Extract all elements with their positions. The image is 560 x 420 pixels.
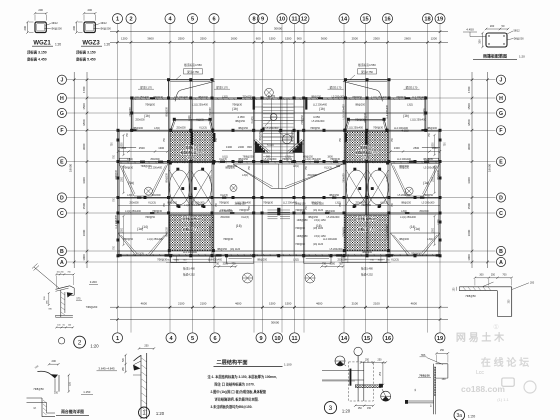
- svg-text:7Φ8@50: 7Φ8@50: [282, 158, 292, 161]
- balcony slab below unit: [342, 256, 387, 262]
- svg-text:7Φ8@50: 7Φ8@50: [352, 96, 362, 99]
- svg-text:250x500: 250x500: [355, 202, 365, 205]
- svg-text:Φ8@200: Φ8@200: [133, 127, 143, 130]
- under-plan leader texts: [183, 267, 373, 277]
- svg-text:1Φ8@150: 1Φ8@150: [297, 235, 309, 238]
- svg-text:L3(2): L3(2): [407, 104, 413, 107]
- svg-text:10: 10: [279, 17, 285, 23]
- svg-text:250: 250: [491, 274, 496, 277]
- lower bay right wing: [391, 233, 441, 256]
- bottom wall poche: [216, 255, 222, 257]
- svg-text:A: A: [60, 260, 64, 266]
- svg-text:250: 250: [144, 344, 149, 347]
- svg-text:3000: 3000: [378, 260, 384, 262]
- svg-text:在 线 论 坛: 在 线 论 坛: [481, 356, 529, 369]
- svg-text:1:20: 1:20: [90, 343, 99, 348]
- svg-text:7Φ8@50: 7Φ8@50: [33, 387, 44, 391]
- svg-text:梁顶3.170: 梁顶3.170: [406, 85, 418, 89]
- svg-text:7Φ8@200: 7Φ8@200: [86, 306, 98, 309]
- hatched roof slab upper right: [345, 131, 389, 162]
- svg-text:9: 9: [261, 17, 264, 23]
- svg-text:10: 10: [274, 336, 280, 342]
- svg-text:Φ8@150: Φ8@150: [166, 227, 169, 237]
- svg-text:板顶1.480: 板顶1.480: [183, 267, 195, 271]
- core wall vertical: [261, 98, 263, 162]
- row poche dashes: [137, 97, 429, 214]
- top segment dims: [110, 36, 448, 43]
- svg-text:1500: 1500: [121, 176, 123, 182]
- svg-text:L1(1) 250x400: L1(1) 250x400: [125, 210, 141, 213]
- svg-text:Φ8@150: Φ8@150: [259, 131, 262, 141]
- svg-text:11: 11: [292, 336, 298, 342]
- svg-text:30600: 30600: [274, 26, 283, 30]
- svg-text:1:20: 1:20: [104, 43, 110, 47]
- svg-text:800: 800: [247, 145, 252, 149]
- svg-text:3000: 3000: [467, 143, 471, 150]
- svg-text:LL2 200x400: LL2 200x400: [412, 96, 427, 99]
- svg-text:底标高 5.450: 底标高 5.450: [75, 56, 96, 61]
- svg-text:L3(2): L3(2): [427, 238, 433, 241]
- svg-text:板底4.252: 板底4.252: [183, 273, 195, 277]
- svg-text:1000: 1000: [82, 254, 86, 261]
- svg-text:1500: 1500: [467, 103, 471, 110]
- svg-text:3600: 3600: [82, 229, 86, 236]
- svg-text:L1(1) 250x400: L1(1) 250x400: [344, 104, 346, 120]
- svg-text:100: 100: [54, 391, 59, 394]
- detail 1 label: [139, 407, 165, 418]
- svg-text:250x500: 250x500: [210, 107, 212, 117]
- svg-text:3000: 3000: [223, 262, 229, 265]
- detail callout a: [270, 114, 277, 121]
- E row text band: [141, 156, 410, 168]
- svg-text:Φ8@200: Φ8@200: [362, 251, 372, 254]
- unit wall vertical: [345, 98, 347, 256]
- bottom wall poche: [436, 255, 440, 257]
- top-right beam section detail: [463, 24, 525, 60]
- svg-text:Φ8@150: Φ8@150: [401, 202, 411, 205]
- svg-text:1200: 1200: [431, 36, 438, 40]
- wing interior vertical dims: [121, 134, 435, 246]
- svg-text:F: F: [499, 128, 502, 134]
- svg-text:1: 1: [116, 17, 119, 23]
- svg-text:Φ8@200: Φ8@200: [427, 127, 437, 130]
- detail 3a drawing: [405, 349, 449, 414]
- core mid horizontal 3: [254, 106, 304, 108]
- svg-text:L1(1) 250x400: L1(1) 250x400: [387, 224, 389, 240]
- svg-text:750: 750: [215, 262, 220, 265]
- stair ovals left unit: [169, 162, 212, 216]
- svg-text:L3(2): L3(2): [127, 158, 133, 161]
- svg-text:L3(2): L3(2): [242, 174, 248, 177]
- balcony left: [112, 129, 137, 161]
- svg-text:3000: 3000: [330, 262, 336, 265]
- svg-text:L1(1) 250x400: L1(1) 250x400: [305, 158, 321, 161]
- svg-text:1500: 1500: [269, 301, 276, 305]
- svg-text:2500: 2500: [178, 36, 185, 40]
- svg-text:LL2 200x400: LL2 200x400: [183, 251, 198, 254]
- svg-text:1:20: 1:20: [156, 411, 165, 416]
- svg-text:1:20: 1:20: [342, 409, 351, 414]
- dense labels mid-right: [220, 203, 326, 252]
- svg-text:2: 2: [78, 340, 82, 347]
- svg-text:J: J: [60, 78, 63, 84]
- svg-text:750: 750: [232, 262, 237, 265]
- svg-text:250x500: 250x500: [129, 202, 139, 205]
- svg-text:1500: 1500: [467, 203, 471, 210]
- svg-text:2100: 2100: [352, 301, 359, 305]
- svg-text:Φ8@200: Φ8@200: [311, 202, 321, 205]
- detail callout b: [282, 135, 291, 144]
- gutter detail B: [97, 344, 156, 419]
- svg-text:7Φ8@50: 7Φ8@50: [301, 115, 304, 125]
- svg-text:7Φ8@50: 7Φ8@50: [355, 119, 365, 122]
- right segment dims: [467, 72, 474, 268]
- D-C mid beam: [118, 205, 440, 207]
- svg-text:KL2(3): KL2(3): [324, 167, 332, 170]
- svg-text:12: 12: [301, 17, 307, 23]
- porch slab: [227, 256, 254, 263]
- svg-text:7Φ8@30: 7Φ8@30: [115, 170, 118, 180]
- svg-text:4600: 4600: [411, 301, 418, 305]
- svg-text:7Φ8@50: 7Φ8@50: [465, 294, 476, 298]
- B row line: [118, 250, 440, 252]
- svg-text:700: 700: [502, 274, 507, 277]
- svg-text:KL2(3): KL2(3): [268, 95, 276, 98]
- svg-text:详见结施说明, 板负筋详见本图.: 详见结施说明, 板负筋详见本图.: [215, 396, 259, 401]
- watermark: [456, 323, 536, 402]
- svg-text:L5(1) 1150: L5(1) 1150: [314, 219, 326, 222]
- core cell lines: [271, 98, 273, 162]
- svg-text:19: 19: [437, 336, 443, 342]
- svg-text:6: 6: [212, 17, 215, 23]
- core dims: [222, 115, 409, 151]
- column detail WGZ1: [23, 8, 63, 62]
- svg-text:(14): (14): [410, 225, 416, 229]
- svg-text:板顶标高4.550: 板顶标高4.550: [358, 63, 376, 67]
- svg-text:4.050: 4.050: [313, 115, 320, 119]
- svg-text:1800: 1800: [327, 156, 333, 159]
- svg-text:1700: 1700: [467, 86, 471, 93]
- outer wall right edge: [439, 130, 441, 256]
- svg-text:1500: 1500: [432, 176, 434, 182]
- wing room funnel right: [391, 164, 440, 197]
- svg-text:250x500: 250x500: [130, 107, 132, 117]
- svg-text:130: 130: [442, 378, 447, 381]
- svg-text:7Φ8@50: 7Φ8@50: [123, 238, 133, 241]
- svg-text:7Φ8@30: 7Φ8@30: [223, 238, 233, 241]
- svg-text:14: 14: [341, 17, 348, 23]
- svg-text:LL2 200x400: LL2 200x400: [174, 96, 189, 99]
- svg-text:2100: 2100: [178, 301, 185, 305]
- svg-text:1500: 1500: [82, 203, 86, 210]
- svg-text:7Φ8@200: 7Φ8@200: [141, 165, 153, 168]
- svg-text:L3(2): L3(2): [127, 194, 133, 197]
- svg-text:Φ8@150: Φ8@150: [167, 202, 177, 205]
- unit wall vertical: [366, 98, 368, 256]
- svg-text:(3.170): (3.170): [362, 156, 370, 160]
- svg-text:900: 900: [266, 156, 271, 159]
- columns: [117, 78, 442, 257]
- svg-text:D: D: [499, 195, 503, 201]
- upper band H wall: [132, 97, 426, 99]
- core wall poche left: [253, 97, 255, 110]
- svg-text:L5 200x300: L5 200x300: [312, 120, 325, 123]
- svg-text:梁顶3.170: 梁顶3.170: [216, 85, 228, 89]
- svg-text:3.未注明板负筋均为Φ8@150.: 3.未注明板负筋均为Φ8@150.: [211, 404, 253, 409]
- bay leader right: [350, 63, 377, 79]
- svg-text:板顶1.480: 板顶1.480: [361, 267, 373, 271]
- svg-text:J: J: [500, 78, 503, 84]
- svg-text:7Φ6: 7Φ6: [421, 354, 426, 357]
- section mark: [265, 88, 274, 97]
- column detail WGZ3: [72, 8, 112, 62]
- svg-text:150: 150: [367, 407, 372, 410]
- svg-text:250: 250: [378, 358, 383, 361]
- F row wall: [118, 129, 440, 131]
- bay window trapezoid right: [344, 119, 389, 131]
- svg-text:1:20: 1:20: [55, 43, 61, 47]
- svg-text:Φ8@200: Φ8@200: [399, 165, 409, 168]
- svg-text:L5 200x300: L5 200x300: [210, 225, 212, 238]
- svg-text:L1(1) 250x400: L1(1) 250x400: [347, 127, 363, 130]
- svg-text:2500: 2500: [352, 36, 359, 40]
- svg-text:3.200: 3.200: [90, 280, 97, 284]
- svg-text:7Φ8@30: 7Φ8@30: [239, 209, 249, 212]
- C row wall: [118, 212, 440, 214]
- vertical grid lines: [118, 24, 441, 333]
- svg-text:19600: 19600: [69, 163, 73, 172]
- small 750 dims: [127, 132, 431, 210]
- svg-text:1:20: 1:20: [519, 54, 525, 58]
- svg-text:3a: 3a: [457, 413, 463, 419]
- svg-text:7Φ8@50: 7Φ8@50: [145, 104, 155, 107]
- svg-text:200: 200: [72, 25, 76, 30]
- svg-text:600: 600: [256, 36, 261, 40]
- left segment dims: [82, 72, 89, 268]
- svg-text:KL2(3): KL2(3): [387, 174, 389, 181]
- svg-text:7Φ8@30: 7Φ8@30: [295, 209, 305, 212]
- svg-text:L3(2): L3(2): [210, 175, 212, 181]
- svg-text:200: 200: [490, 24, 495, 28]
- svg-text:A: A: [499, 260, 503, 266]
- svg-text:E: E: [60, 159, 64, 165]
- stair ramp diagonal left: [254, 140, 268, 153]
- bay leader left: [176, 63, 203, 79]
- svg-text:5: 5: [191, 17, 194, 23]
- svg-text:LL2 200x400: LL2 200x400: [116, 215, 118, 229]
- svg-text:250x500: 250x500: [151, 194, 161, 197]
- svg-text:屋面结构标高2.970: 屋面结构标高2.970: [355, 151, 378, 155]
- svg-text:梁顶2.750: 梁顶2.750: [361, 70, 373, 74]
- svg-text:Φ8@200: Φ8@200: [257, 259, 267, 262]
- svg-text:1500: 1500: [121, 227, 123, 233]
- svg-text:1300: 1300: [394, 146, 400, 150]
- svg-text:Φ8@150: Φ8@150: [303, 156, 313, 159]
- svg-text:2: 2: [129, 17, 132, 23]
- svg-text:7Φ8@50: 7Φ8@50: [423, 194, 433, 197]
- svg-text:LL2 200x400: LL2 200x400: [394, 127, 409, 130]
- detail 3 label: [324, 402, 350, 414]
- balcony slab below unit: [171, 256, 216, 262]
- svg-text:1:100: 1:100: [284, 363, 292, 367]
- svg-text:7Φ8@50: 7Φ8@50: [419, 374, 430, 378]
- right total dim 19600: [486, 72, 491, 268]
- svg-text:1500: 1500: [269, 36, 276, 40]
- svg-text:1800: 1800: [82, 119, 86, 126]
- svg-text:2400: 2400: [238, 145, 244, 149]
- svg-text:200: 200: [530, 282, 535, 285]
- svg-text:4.450: 4.450: [466, 28, 474, 32]
- svg-text:(1b): (1b): [144, 114, 150, 118]
- detail 3 drawing: [322, 347, 391, 410]
- core party wall: [253, 98, 255, 256]
- svg-text:雨篷板配筋图: 雨篷板配筋图: [483, 53, 507, 59]
- svg-text:7Φ8@50: 7Φ8@50: [219, 202, 229, 205]
- svg-text:(1b): (1b): [403, 114, 409, 118]
- svg-text:1500: 1500: [82, 103, 86, 110]
- svg-text:1200: 1200: [121, 36, 128, 40]
- right axis circles J-A: [496, 75, 505, 267]
- stair treads core: [263, 104, 294, 157]
- svg-text:L5 200x300: L5 200x300: [424, 167, 437, 170]
- svg-text:板顶标高4.550: 板顶标高4.550: [184, 63, 202, 67]
- scattered beam labels: [115, 95, 440, 262]
- svg-text:350: 350: [478, 39, 482, 44]
- svg-text:顶标高 3.150: 顶标高 3.150: [76, 50, 96, 55]
- svg-text:300: 300: [479, 274, 484, 277]
- svg-text:Φ8@200: Φ8@200: [166, 107, 169, 117]
- unit wall vertical: [388, 98, 390, 256]
- bay protrusion left unit: [169, 80, 215, 102]
- bottom wall poche: [386, 255, 394, 257]
- svg-text:梁顶2.750: 梁顶2.750: [187, 70, 199, 74]
- svg-text:7Φ8@30: 7Φ8@30: [373, 127, 383, 130]
- svg-text:F: F: [60, 128, 63, 134]
- svg-text:L8(1): L8(1): [293, 165, 299, 168]
- svg-text:4600: 4600: [235, 301, 242, 305]
- svg-text:2.图中 (1b)(除 囗 者)为现浇板,具体配筋: 2.图中 (1b)(除 囗 者)为现浇板,具体配筋: [211, 389, 267, 394]
- svg-text:Φ8@200: Φ8@200: [355, 104, 365, 107]
- svg-text:KL2(3): KL2(3): [424, 108, 426, 115]
- svg-text:2600: 2600: [231, 36, 238, 40]
- svg-text:L5 200x300: L5 200x300: [192, 202, 205, 205]
- svg-text:Φ8@150: Φ8@150: [238, 127, 248, 130]
- svg-text:1Φ8@150: 1Φ8@150: [297, 219, 309, 222]
- svg-text:Φ8@200: Φ8@200: [198, 96, 208, 99]
- svg-text:结构标高3.170: 结构标高3.170: [358, 228, 375, 232]
- svg-text:L5 200x300: L5 200x300: [266, 127, 279, 130]
- svg-text:L3(2): L3(2): [222, 96, 228, 99]
- svg-text:H: H: [60, 96, 64, 102]
- detail 3a label: [454, 410, 475, 420]
- bay protrusion right unit: [343, 80, 389, 102]
- svg-text:520: 520: [69, 381, 72, 386]
- svg-text:200: 200: [38, 8, 43, 12]
- svg-text:Φ6@200: Φ6@200: [51, 27, 62, 31]
- svg-text:1500: 1500: [432, 142, 434, 148]
- core wall poche right: [297, 130, 299, 144]
- svg-text:雨台檐沟详图: 雨台檐沟详图: [61, 409, 84, 414]
- core mid horizontal 4: [254, 120, 304, 122]
- upper band left wall: [131, 98, 133, 130]
- hatched slab lower left: [169, 205, 213, 250]
- svg-text:除注 囗 处结构标高为 3.070.: 除注 囗 处结构标高为 3.070.: [215, 382, 255, 387]
- svg-text:250x500: 250x500: [135, 119, 145, 122]
- core lower stub: [261, 213, 263, 256]
- svg-text:C: C: [499, 211, 503, 217]
- svg-text:L5 200x300: L5 200x300: [332, 96, 345, 99]
- unit wall vertical: [211, 98, 213, 256]
- svg-text:B: B: [499, 249, 503, 255]
- svg-text:(1b) 1120: (1b) 1120: [313, 243, 324, 246]
- svg-text:现浇板 板厚120: 现浇板 板厚120: [357, 217, 376, 221]
- svg-text:2100: 2100: [200, 301, 207, 305]
- svg-text:250: 250: [440, 349, 445, 352]
- stair ovals right unit: [346, 162, 389, 216]
- core wall vertical: [293, 98, 295, 162]
- svg-text:Φ8@150: Φ8@150: [227, 165, 237, 168]
- svg-text:2500: 2500: [139, 146, 145, 150]
- svg-text:5Φ12: 5Φ12: [514, 30, 521, 33]
- svg-text:200: 200: [52, 359, 57, 363]
- G row wall: [132, 112, 426, 114]
- svg-text:4600: 4600: [141, 301, 148, 305]
- svg-text:Φ8@150: Φ8@150: [217, 248, 227, 251]
- E row wall: [118, 161, 440, 163]
- svg-text:①: ①: [493, 323, 499, 331]
- porch slab: [304, 256, 331, 263]
- svg-text:4Φ12: 4Φ12: [51, 21, 58, 25]
- svg-text:7Φ8@30: 7Φ8@30: [123, 167, 133, 170]
- svg-text:7Φ8@50: 7Φ8@50: [343, 227, 346, 237]
- core mid horizontal 5: [262, 136, 294, 138]
- svg-text:(1) 1.1: (1) 1.1: [497, 397, 509, 402]
- svg-text:L5 200x300: L5 200x300: [398, 194, 411, 197]
- interior dims right wing: [389, 146, 441, 153]
- svg-text:L1(1) 250x400: L1(1) 250x400: [192, 104, 208, 107]
- svg-text:L5 200x300: L5 200x300: [327, 216, 340, 219]
- svg-text:19: 19: [437, 17, 443, 23]
- svg-text:3400: 3400: [467, 177, 471, 184]
- svg-text:1500: 1500: [432, 227, 434, 233]
- svg-text:1700: 1700: [82, 86, 86, 93]
- svg-text:(1a): (1a): [423, 181, 429, 185]
- svg-text:(14): (14): [142, 225, 148, 229]
- stair ramp diagonal right: [289, 140, 303, 153]
- outer wall left edge: [117, 130, 119, 256]
- svg-text:LL2 200x400: LL2 200x400: [387, 105, 389, 119]
- svg-text:KL2(3): KL2(3): [380, 202, 388, 205]
- svg-text:(1b): (1b): [319, 107, 325, 111]
- svg-text:15: 15: [364, 336, 370, 342]
- svg-text:(1b) 1120: (1b) 1120: [313, 209, 324, 212]
- svg-text:1800: 1800: [467, 119, 471, 126]
- svg-text:2600: 2600: [404, 36, 411, 40]
- svg-text:Φ8@200: Φ8@200: [437, 170, 440, 180]
- bay window trapezoid left: [169, 119, 214, 131]
- bottom wall poche: [165, 255, 173, 257]
- svg-text:250x500: 250x500: [419, 210, 429, 213]
- svg-text:1: 1: [116, 336, 119, 342]
- svg-text:G: G: [499, 111, 503, 117]
- entry steps: [268, 208, 291, 219]
- svg-text:KL2(3): KL2(3): [252, 116, 254, 123]
- svg-text:L5 200x300: L5 200x300: [292, 129, 294, 142]
- svg-text:1300: 1300: [226, 145, 232, 149]
- central roof funnel: [230, 164, 343, 192]
- svg-text:C: C: [60, 211, 64, 217]
- svg-text:19600: 19600: [488, 163, 492, 172]
